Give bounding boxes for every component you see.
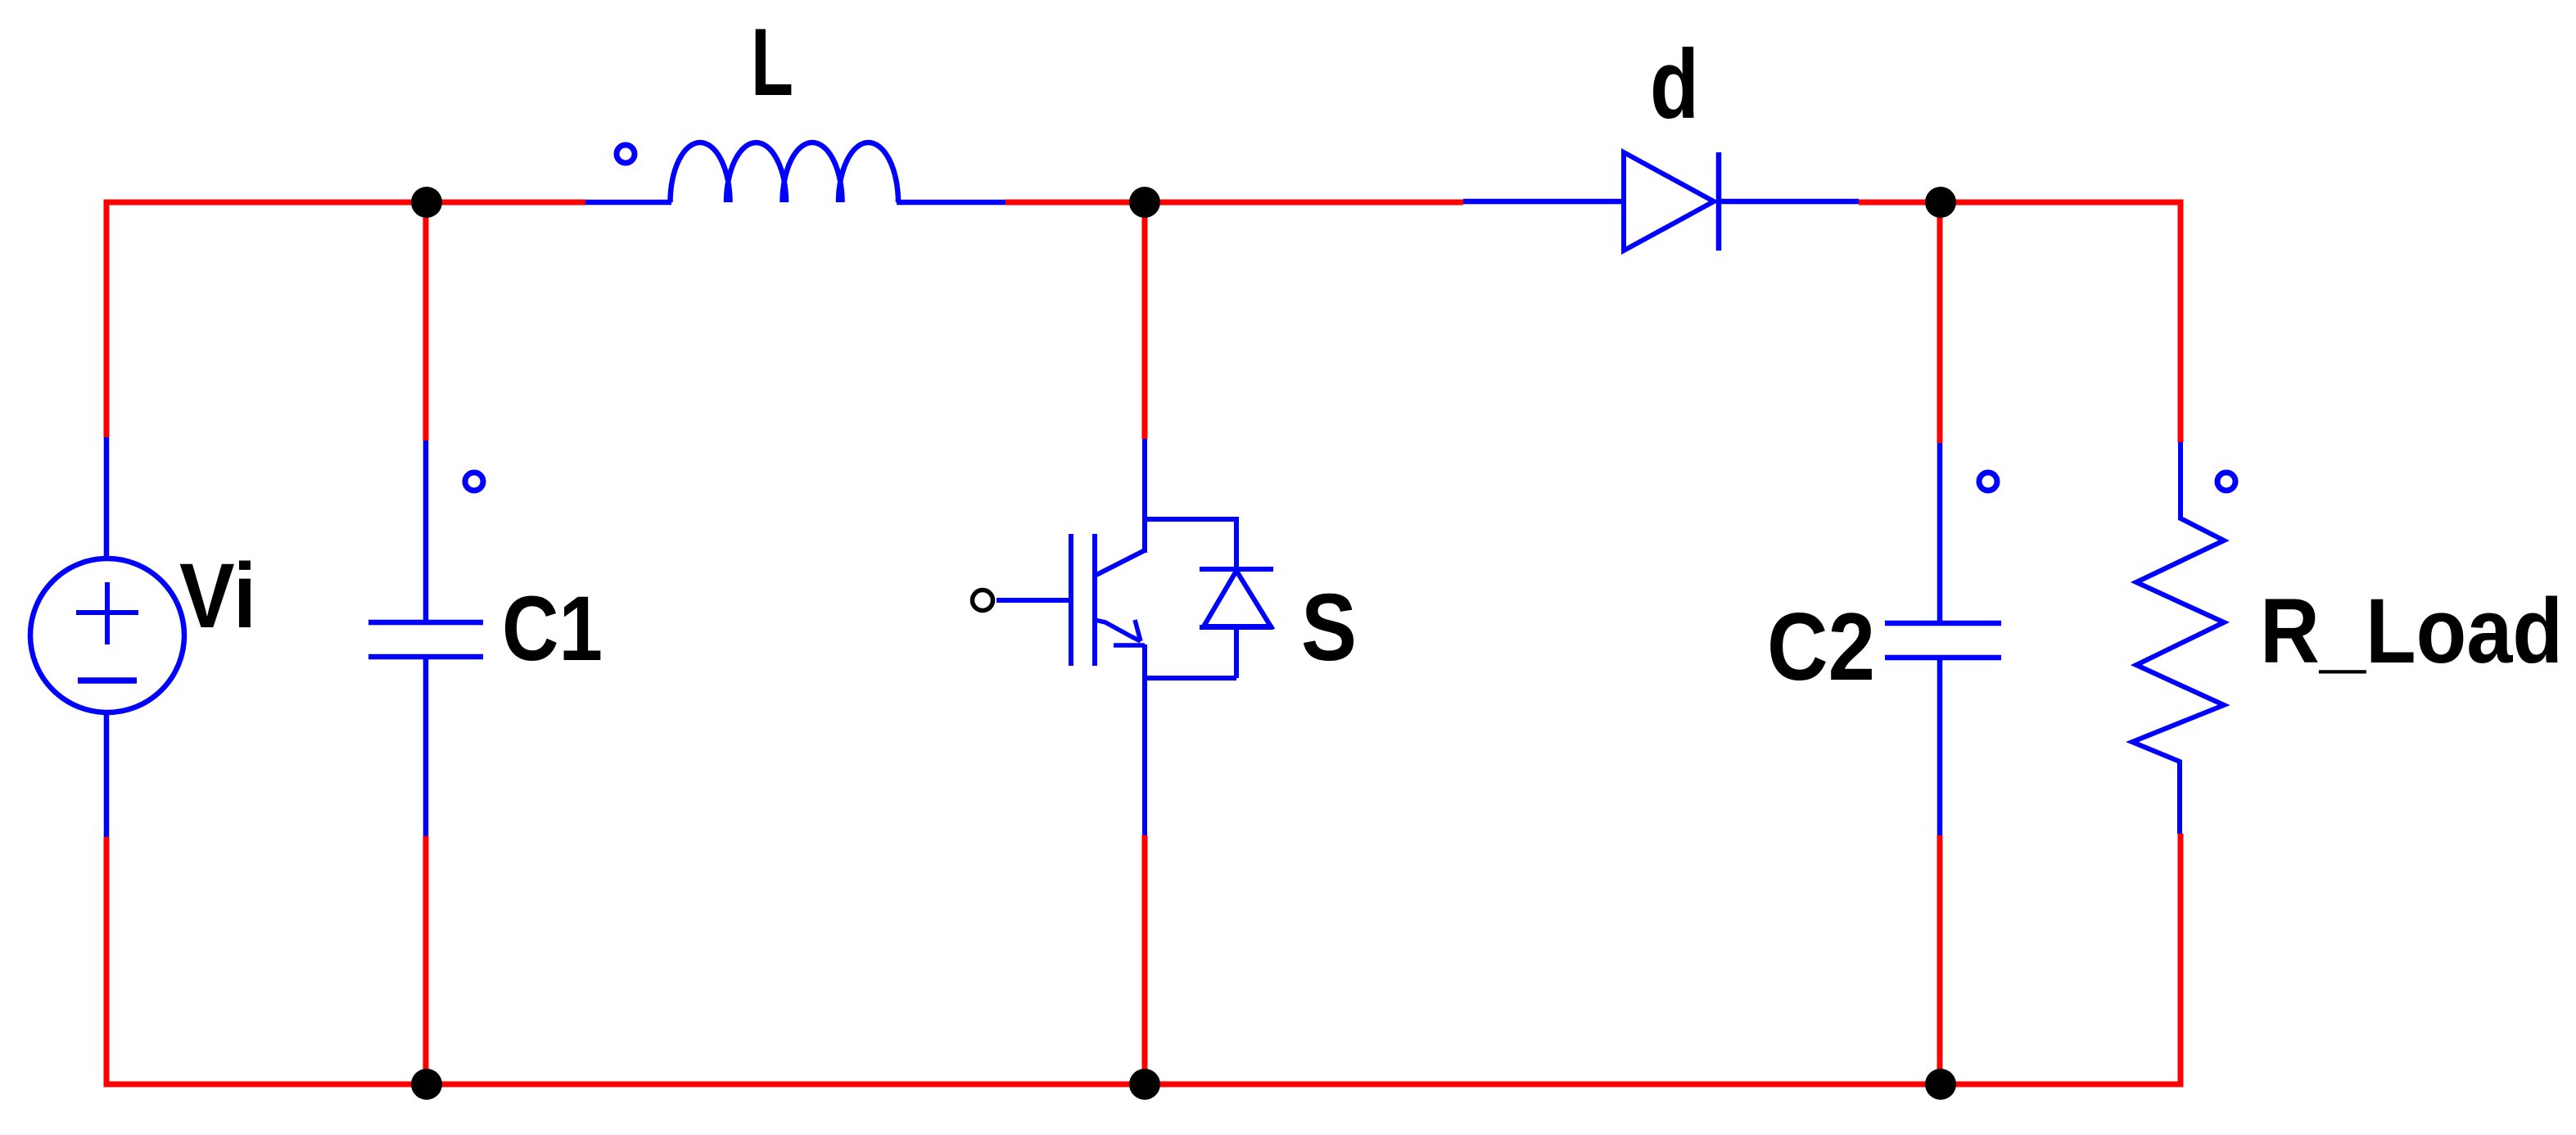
C2 pin marker <box>1979 473 1997 491</box>
junction bottom switch node <box>1129 1069 1160 1100</box>
C1 pin marker <box>465 473 483 491</box>
label R_Load <box>2260 580 2563 682</box>
wire bottom bus <box>104 1082 2184 1088</box>
label C2 <box>1767 593 1875 700</box>
capacitor C2 <box>1885 443 2001 835</box>
L pin marker <box>617 145 635 163</box>
svg-text:d: d <box>1650 29 1699 139</box>
diode d <box>1463 152 1859 251</box>
svg-text:S: S <box>1301 574 1357 681</box>
svg-text:R_Load: R_Load <box>2260 580 2563 682</box>
svg-text:L: L <box>751 8 793 115</box>
svg-text:C1: C1 <box>502 577 603 680</box>
wire switch bottom stub <box>1142 835 1148 1084</box>
inductor L <box>585 142 1006 202</box>
junction bottom C1 node <box>411 1069 442 1100</box>
wire top bus middle segment <box>1006 200 1463 206</box>
svg-text:Vi: Vi <box>179 545 256 647</box>
wire C2 top stub <box>1937 202 1943 443</box>
wire left vertical top <box>104 200 110 438</box>
label C1 <box>502 577 603 680</box>
wire left vertical bottom <box>104 837 110 1084</box>
IGBT switch S <box>997 439 1273 835</box>
S gate terminal circle <box>973 590 993 611</box>
junction bottom C2 node <box>1925 1069 1956 1100</box>
resistor R_Load <box>2132 442 2224 834</box>
wire C1 bottom stub <box>423 836 429 1084</box>
wire switch top stub <box>1142 202 1148 439</box>
wire top bus left segment <box>106 200 585 206</box>
svg-text:C2: C2 <box>1767 593 1875 700</box>
wire right vertical bottom <box>2178 834 2184 1084</box>
wire right vertical top <box>2178 200 2184 443</box>
R_Load pin marker <box>2217 473 2235 491</box>
wire top bus right segment <box>1859 200 2181 206</box>
wire C2 bottom stub <box>1937 835 1943 1084</box>
wire C1 top stub <box>423 202 429 441</box>
junction top C2 node <box>1925 187 1956 218</box>
junction top switch node <box>1129 187 1160 218</box>
label Vi <box>179 545 256 647</box>
label S <box>1301 574 1357 681</box>
capacitor C1 <box>368 441 483 836</box>
voltage source Vi <box>30 437 184 837</box>
junction top C1 node <box>411 187 442 218</box>
label L <box>751 8 793 115</box>
label d <box>1650 29 1699 139</box>
